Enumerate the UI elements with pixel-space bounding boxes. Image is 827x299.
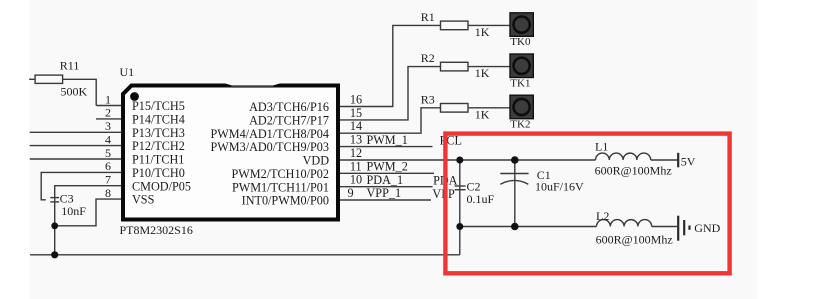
svg-text:9: 9 xyxy=(348,186,354,200)
svg-text:P11/TCH1: P11/TCH1 xyxy=(132,153,184,167)
junction dot VDD / C2 xyxy=(456,157,463,164)
IC U1 body outline (chamfered top-left corner) xyxy=(123,86,338,220)
capacitor C1 vertical wire xyxy=(514,160,516,227)
svg-text:12: 12 xyxy=(350,146,362,160)
touch button TK2 body xyxy=(510,95,533,119)
svg-text:R2: R2 xyxy=(421,51,435,65)
capacitor C3 plates xyxy=(50,197,59,199)
wire pin13 PWM_1 net xyxy=(340,146,433,148)
wire pin10 PDA_1 net xyxy=(340,186,433,188)
wire bottom ground rail xyxy=(30,254,460,256)
svg-text:P13/TCH3: P13/TCH3 xyxy=(132,126,185,140)
resistor R11 left stub wire xyxy=(29,78,35,80)
svg-text:P12/TCH2: P12/TCH2 xyxy=(132,139,185,153)
capacitor C1 curved bottom plate xyxy=(500,180,528,184)
wire R2 to button TK1 xyxy=(468,66,510,68)
svg-text:INT0/PWM0/P00: INT0/PWM0/P00 xyxy=(242,194,329,208)
svg-text:1K: 1K xyxy=(475,25,490,39)
capacitor C2 plates xyxy=(455,185,466,187)
svg-text:VSS: VSS xyxy=(132,193,155,207)
svg-text:5V: 5V xyxy=(681,155,696,169)
svg-text:R11: R11 xyxy=(60,59,80,73)
svg-text:U1: U1 xyxy=(120,65,135,79)
svg-text:10nF: 10nF xyxy=(61,204,86,218)
capacitor C2 vertical wire xyxy=(459,160,461,227)
wire pin9 VPP_1 net xyxy=(340,199,431,201)
resistor R2 body xyxy=(441,62,469,71)
red annotation rectangle xyxy=(445,134,729,274)
svg-text:5: 5 xyxy=(105,146,111,160)
svg-text:10: 10 xyxy=(350,173,362,187)
svg-text:2: 2 xyxy=(105,106,111,120)
svg-text:PWM4/AD1/TCH8/P04: PWM4/AD1/TCH8/P04 xyxy=(210,127,329,141)
junction dot bottom rail / C2 xyxy=(456,223,463,230)
wire R11 to pin1 corner xyxy=(63,79,97,105)
junction dot C3 / ground rail xyxy=(51,251,58,258)
ground symbol bar 2 xyxy=(683,220,685,235)
svg-text:VDD: VDD xyxy=(303,154,330,168)
inductor L2 coil xyxy=(597,220,652,227)
svg-text:CMOD/P05: CMOD/P05 xyxy=(132,179,191,193)
svg-text:11: 11 xyxy=(350,159,362,173)
wire pin2 stub xyxy=(96,118,123,120)
IC U1 pin1 indicator dot xyxy=(130,92,139,101)
svg-text:P10/TCH0: P10/TCH0 xyxy=(132,166,185,180)
svg-text:PDA_1: PDA_1 xyxy=(367,173,404,187)
power bar symbol 5V xyxy=(677,153,679,168)
svg-text:10uF/16V: 10uF/16V xyxy=(535,180,584,194)
wire R1 to button TK0 xyxy=(468,24,510,26)
svg-text:500K: 500K xyxy=(61,84,88,98)
svg-text:TK1: TK1 xyxy=(510,77,530,89)
resistor R1 body xyxy=(441,21,469,30)
svg-text:1K: 1K xyxy=(475,66,490,80)
wire pin5 net xyxy=(30,158,123,160)
svg-text:15: 15 xyxy=(350,106,362,120)
svg-text:GND: GND xyxy=(694,221,720,235)
wire pin11 PWM_2 net xyxy=(340,172,434,174)
svg-text:13: 13 xyxy=(350,133,362,147)
svg-text:AD3/TCH6/P16: AD3/TCH6/P16 xyxy=(249,100,329,114)
svg-text:R3: R3 xyxy=(421,92,435,106)
svg-text:600R@100Mhz: 600R@100Mhz xyxy=(596,233,673,247)
junction dot VDD / C1 xyxy=(511,156,519,164)
svg-text:8: 8 xyxy=(105,186,111,200)
svg-text:3: 3 xyxy=(105,119,111,133)
svg-text:PWM2/TCH10/P02: PWM2/TCH10/P02 xyxy=(231,167,329,181)
svg-text:AD2/TCH7/P17: AD2/TCH7/P17 xyxy=(249,114,329,128)
wire C3 bottom to ground rail xyxy=(54,198,56,255)
svg-text:PWM1/TCH11/P01: PWM1/TCH11/P01 xyxy=(232,180,329,194)
svg-text:TK2: TK2 xyxy=(510,119,530,131)
svg-text:P14/TCH4: P14/TCH4 xyxy=(132,113,185,127)
svg-text:PWM3/AD0/TCH9/P03: PWM3/AD0/TCH9/P03 xyxy=(210,140,329,154)
svg-text:PWM_1: PWM_1 xyxy=(367,133,408,147)
wire L2 to GND symbol xyxy=(652,226,678,228)
capacitor C1 top plate xyxy=(500,173,528,175)
svg-text:TK0: TK0 xyxy=(510,36,531,48)
svg-text:16: 16 xyxy=(350,93,362,107)
svg-text:L1: L1 xyxy=(595,140,608,154)
touch button TK0 body xyxy=(510,13,533,37)
wire pin15 to resistor R2 xyxy=(340,67,441,120)
wire pin8 VSS route xyxy=(55,199,123,226)
svg-text:0.1uF: 0.1uF xyxy=(467,192,495,206)
wire pin3 net xyxy=(30,131,123,133)
inductor L1 coil xyxy=(596,153,651,160)
resistor R3 body xyxy=(441,104,469,113)
wire C2 bottom to ground rail below xyxy=(459,227,461,255)
svg-text:4: 4 xyxy=(105,132,111,146)
resistor R11 body xyxy=(35,75,63,83)
IC U1 top border gray segment xyxy=(225,83,281,86)
svg-text:L2: L2 xyxy=(596,209,609,223)
wire pin6 net with corner down to C3 area xyxy=(41,172,123,199)
wire R3 to button TK2 xyxy=(468,107,510,109)
svg-text:14: 14 xyxy=(350,119,362,133)
wire pin1 stub xyxy=(96,105,123,107)
junction dot C3 / VSS xyxy=(51,222,58,229)
svg-text:6: 6 xyxy=(105,159,111,173)
svg-text:PT8M2302S16: PT8M2302S16 xyxy=(120,223,193,237)
svg-text:P15/TCH5: P15/TCH5 xyxy=(132,99,185,113)
ground symbol bar 1 xyxy=(677,216,679,241)
svg-text:VPP_1: VPP_1 xyxy=(367,186,402,200)
svg-text:7: 7 xyxy=(105,173,111,187)
ground symbol bar 3 xyxy=(688,226,690,230)
wire pin16 to resistor R1 xyxy=(340,25,441,106)
svg-text:R1: R1 xyxy=(421,10,435,24)
svg-text:600R@100Mhz: 600R@100Mhz xyxy=(595,164,672,178)
wire L1 to 5V bar xyxy=(651,159,678,161)
wire pin12 VDD rail xyxy=(340,159,596,161)
svg-text:1: 1 xyxy=(105,92,111,106)
wire bottom rail of filter xyxy=(460,226,597,228)
junction dot bottom rail / C1 xyxy=(511,223,519,231)
wire pin14 to resistor R3 xyxy=(340,108,441,133)
svg-text:1K: 1K xyxy=(475,107,490,121)
touch button TK1 body xyxy=(510,54,533,78)
wire pin4 net xyxy=(30,145,123,147)
svg-text:PWM_2: PWM_2 xyxy=(367,160,408,174)
wire pin7 to capacitor C3 top xyxy=(55,186,123,198)
